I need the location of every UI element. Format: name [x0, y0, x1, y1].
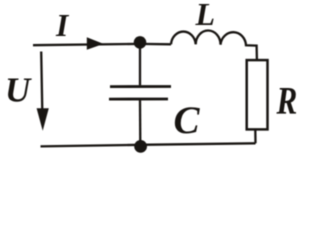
svg-text:C: C [174, 99, 201, 142]
svg-text:U: U [5, 70, 32, 109]
svg-text:L: L [195, 0, 216, 32]
svg-text:R: R [276, 79, 298, 122]
svg-text:I: I [55, 8, 70, 43]
